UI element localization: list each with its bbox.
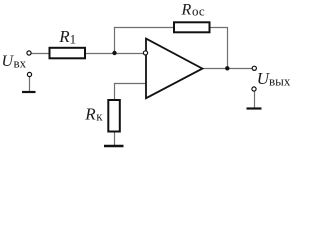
svg-text:R: R [58,27,70,46]
wire: right ground stem [254,91,256,108]
ground (Rk) bar [104,145,124,147]
wire: non-inverting input [115,84,147,102]
node A junction dot [112,51,116,55]
svg-text:к: к [96,109,103,124]
svg-text:вх: вх [14,56,27,71]
wire: feedback vertical from node A [114,27,116,54]
wire: Rk to ground [114,130,116,146]
svg-text:R: R [181,2,192,19]
input terminal Uvx [27,51,31,55]
resistor R1 [50,48,86,59]
op-amp U1 [146,39,202,99]
svg-text:ос: ос [192,4,205,19]
ground (output side) bar [247,107,262,109]
svg-text:R: R [84,104,96,123]
output terminal Uvyx [252,66,256,70]
wire: left ground stem [29,77,31,93]
wire: op-amp output to terminal [202,68,252,70]
wire: Roc to output node [208,28,228,69]
resistor Roc [174,22,210,32]
svg-text:вых: вых [269,74,291,89]
svg-text:1: 1 [70,32,77,47]
ground (input side) bar [22,91,36,93]
wire: R1 to inverting input bubble [85,53,144,55]
wire: input terminal to R1 [31,53,49,55]
resistor Rk [108,100,120,132]
wire: feedback horizontal to Roc [114,27,175,29]
node output junction dot [225,66,229,70]
ground terminal (input side) [27,72,31,76]
ground terminal (output side) [252,87,256,91]
inverting input bubble [143,51,147,55]
